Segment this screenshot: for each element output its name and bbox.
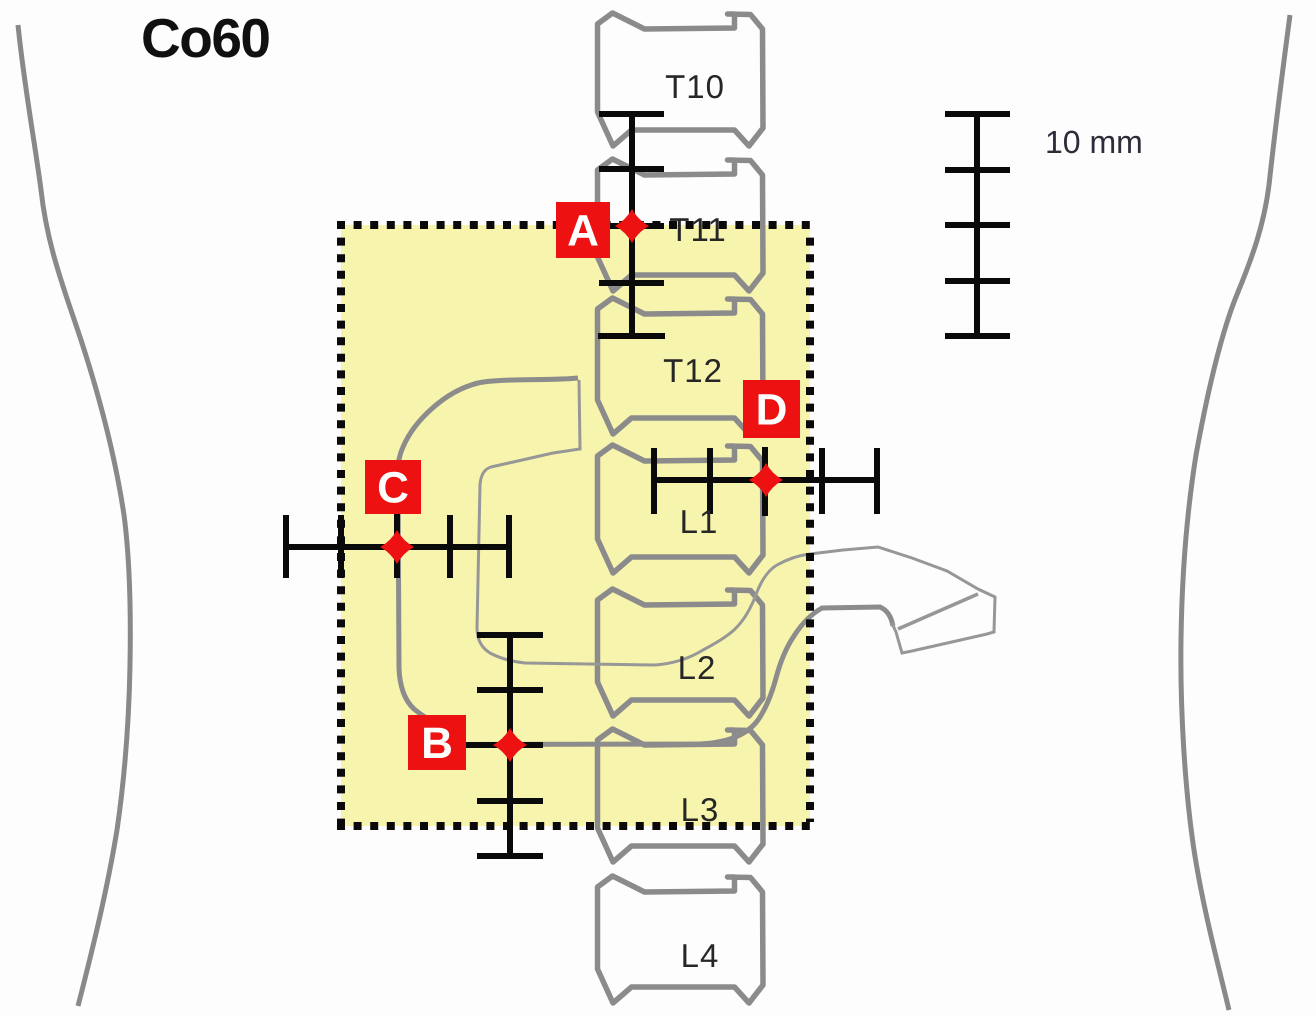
bar C tick center/connector xyxy=(394,512,400,578)
bar A tick 1 xyxy=(599,166,664,172)
bar D cap right xyxy=(874,448,880,514)
vertebra L2 xyxy=(598,589,764,716)
svg-text:L2: L2 xyxy=(678,649,717,686)
vertebra T12 xyxy=(598,298,764,434)
vertebra L3 xyxy=(598,729,764,862)
bar A tick center xyxy=(599,223,664,229)
marker box C xyxy=(365,460,421,514)
bar C cap right xyxy=(506,515,512,578)
vertebra L4 xyxy=(598,876,764,1003)
point C diamond xyxy=(380,530,414,564)
svg-text:A: A xyxy=(567,207,599,256)
bar B tick 2 xyxy=(477,798,543,804)
measurement bar D horizontal line xyxy=(654,477,877,483)
dotted region border bottom xyxy=(337,822,814,830)
rib inner fold line xyxy=(898,594,978,629)
vertebra T10 xyxy=(598,13,764,146)
scale tick 1 xyxy=(945,167,1010,173)
bar C tick 1 xyxy=(338,515,344,578)
vertebra T11 xyxy=(598,159,764,291)
marker box B xyxy=(408,715,466,770)
bar A cap bottom xyxy=(598,333,665,339)
svg-text:C: C xyxy=(377,464,409,513)
svg-text:T11: T11 xyxy=(669,211,726,248)
vertebra L1 xyxy=(598,445,764,573)
dotted region border left xyxy=(337,238,345,822)
bar D tick 1 xyxy=(707,448,713,514)
bar D tick 2 xyxy=(819,448,825,514)
bar D cap left xyxy=(651,448,657,514)
point A diamond xyxy=(615,209,649,243)
svg-text:10 mm: 10 mm xyxy=(1045,124,1143,160)
svg-text:D: D xyxy=(756,386,788,435)
svg-text:L4: L4 xyxy=(681,937,720,974)
dotted region border top xyxy=(337,221,814,229)
svg-text:B: B xyxy=(421,719,453,768)
bar A cap top xyxy=(599,111,664,117)
svg-text:L1: L1 xyxy=(680,503,719,540)
yellow treatment field region xyxy=(341,225,810,826)
measurement bar C horizontal line xyxy=(286,544,509,550)
bar B cap bottom xyxy=(477,853,543,859)
marker box A xyxy=(556,202,610,258)
svg-text:Co60: Co60 xyxy=(141,7,270,69)
kidney inner thin contour and rib outline xyxy=(477,380,995,665)
marker box D xyxy=(743,380,800,438)
bar C tick 2 xyxy=(447,515,453,578)
bar B tick center/connector xyxy=(464,742,543,748)
right body outline xyxy=(1181,15,1290,1010)
scale cap top xyxy=(945,111,1010,117)
scale tick 3 xyxy=(945,278,1010,284)
kidney contour lower horizontal and rise to rib xyxy=(458,607,893,745)
svg-text:T12: T12 xyxy=(663,352,723,389)
measurement bar B vertical line xyxy=(507,635,513,856)
kidney outline thick contour xyxy=(398,378,578,726)
bar A tick 2 xyxy=(599,280,664,286)
left body outline xyxy=(18,25,130,1006)
scale cap bottom xyxy=(945,333,1010,339)
bar B cap top xyxy=(477,632,543,638)
scale tick 2 xyxy=(945,222,1010,228)
dotted region border right xyxy=(806,238,814,822)
point D diamond xyxy=(749,463,783,497)
bar B tick 1 xyxy=(477,687,543,693)
measurement bar A vertical line xyxy=(629,114,635,336)
scale bar vertical line xyxy=(974,114,980,336)
svg-text:T10: T10 xyxy=(665,68,725,105)
bar D tick center xyxy=(762,447,768,516)
point B diamond xyxy=(493,728,527,762)
bar C cap left xyxy=(283,515,289,578)
